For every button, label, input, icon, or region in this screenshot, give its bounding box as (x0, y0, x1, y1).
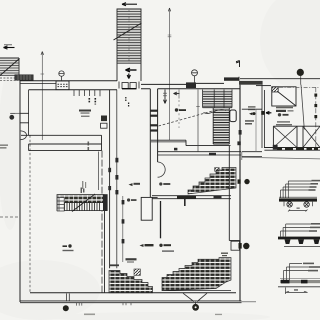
corridor stem left wall (149, 89, 151, 198)
detail D3 top line (280, 278, 320, 280)
stair S1 shaft walls (117, 9, 141, 82)
dark fill on wall band (177, 196, 196, 199)
label on right wall lower (245, 120, 254, 124)
door arc on left wall (21, 131, 27, 140)
long corridor wall x=109.5 (109, 90, 111, 268)
detail D1 leader lines (281, 181, 312, 198)
filled grid bubble G4 (243, 243, 249, 249)
top wall left wing outer face (20, 80, 118, 82)
detail D3 dimension (286, 288, 308, 295)
labels annex text block (276, 107, 294, 126)
dark hatch dashes on bottom wall (277, 148, 318, 150)
annex bottom wall band (264, 148, 320, 151)
detail D3 bottom line (278, 286, 320, 288)
outer bottom wall (20, 301, 242, 303)
top wall right of shaft outer (141, 83, 186, 85)
detail D1 base ticks (284, 202, 313, 207)
stair S2 outline (0, 58, 19, 76)
long corridor wall x=116.8 (116, 90, 118, 268)
filled grid bubble G6 (bottom center) (192, 304, 199, 311)
room dimension marker 2 (174, 90, 180, 129)
dimension ticks below wall (77, 302, 132, 305)
detail D1 joist circle 1 (287, 202, 292, 207)
dark corner block bay1 (273, 145, 278, 150)
faint left margin text (0, 145, 8, 149)
ramp R2 top row hatch (57, 195, 104, 203)
section flag marker (236, 61, 240, 68)
wall second line y=155 (158, 154, 241, 156)
extension line x=256 (255, 109, 257, 152)
detail D1 dim text (297, 207, 300, 209)
entrance door jambs below shaft (119, 82, 139, 89)
filled grid bubble G5 (bottom left) (63, 305, 69, 311)
porch column marks (89, 98, 95, 105)
tiny marks near porch columns (88, 142, 90, 151)
ramp R1 small top block (215, 168, 220, 172)
inner wall x=230.5 (228, 146, 230, 241)
bay divider piers (273, 126, 303, 147)
label above left ramp (126, 258, 137, 262)
lift shaft rounded box (230, 110, 236, 122)
stair S3 landing line (203, 107, 232, 109)
detail D3 labels (303, 263, 320, 272)
door ticks bottom-left (67, 294, 70, 302)
arrow top-left (4, 45, 15, 49)
label in mid-right room (175, 108, 186, 111)
annex inner square room (272, 87, 296, 106)
stair S3 left edge (202, 90, 204, 108)
stair S2 landing hatched bar (15, 75, 33, 80)
annex top line (240, 78, 320, 80)
dark door block on right wall (upper) (239, 130, 242, 135)
wall corner down from ramp room (152, 196, 158, 198)
wall under mid rooms y=140 (151, 140, 186, 142)
link wall to annex (242, 108, 262, 110)
stair S3 lower treads (dark) (213, 110, 229, 143)
jog to right wall at y=240.5 (229, 240, 240, 242)
stem door jambs (150, 110, 157, 132)
ramp R3 upper small block (134, 269, 140, 275)
grid bubble G2 (192, 70, 198, 84)
stair S1 center dashed line (128, 10, 130, 63)
hatched corner block (272, 87, 278, 92)
ramp R2 body (57, 195, 104, 211)
room dimension marker 1 (163, 90, 167, 104)
bay 1 diagonals (273, 126, 297, 147)
bottom wall extension right (242, 301, 257, 303)
dimension line B (x=169.5) (168, 8, 172, 140)
ramp R2 mid line (57, 202, 104, 204)
V-guides to bottom bubble (183, 293, 207, 301)
ramp R2 lower treads (60, 203, 100, 211)
detail D1 slab top lines (279, 196, 317, 198)
ramp slope dashed line in mid-right room (159, 111, 214, 126)
dash-dot line across annex (279, 86, 320, 88)
interior wall x=160.5 lower (160, 201, 162, 238)
detail D2 leader lines (281, 224, 312, 237)
label mid corridor (127, 198, 136, 201)
wall band y=151.7 top of lower-right rooms (158, 151, 241, 153)
stair S3 walking-line curved arrow (204, 110, 227, 114)
left outer wall (19, 81, 21, 302)
detail D1 slab dark band (279, 198, 317, 201)
interior wall band y=144/150.5 (29, 144, 102, 151)
dark blobs on corridor wall (108, 158, 118, 195)
door opening in left wall (11, 113, 29, 123)
grid bubble G1 (59, 71, 64, 81)
room divider line x=198 (197, 90, 199, 152)
label room left-wing (79, 110, 91, 117)
bay 2 diagonals (303, 126, 320, 147)
diagonal brace in square (278, 92, 295, 106)
inner bottom wall (30, 292, 236, 294)
arrow at stair top (122, 3, 137, 6)
marks above ramp R2 (81, 188, 84, 194)
ramp R2 dark newel (103, 194, 108, 211)
wall band to grid line (196, 82, 224, 84)
top wall right of shaft inner (141, 88, 240, 90)
labels between buildings (248, 106, 256, 115)
detail D1 dimension (288, 210, 308, 212)
annex left wall (262, 85, 264, 148)
arrow inside shaft (126, 68, 137, 72)
link wall lower passage (242, 152, 262, 157)
dimension line A (x=42) (41, 52, 45, 141)
detail D3 leader lines (284, 264, 310, 281)
wall band under ramp R1 (152, 196, 231, 199)
stair S2 treads (0, 61, 19, 81)
small down arrow at entrance (127, 74, 130, 79)
stair S3 flight dividers (214, 90, 232, 108)
small arrow in annex link (266, 111, 271, 114)
raised dark parapet (224, 77, 239, 80)
annex left wall door block (261, 111, 265, 115)
corridor east wall segments with door blocks (122, 196, 124, 262)
interior wall y=135 (21, 134, 102, 136)
main right wall (239, 85, 241, 302)
stair S3 upper treads (203, 92, 232, 106)
annex north wall segment (256, 85, 271, 87)
top wall left wing second line (20, 82, 57, 84)
corridor walls to bottom (104, 211, 106, 293)
boxed symbol on dashed wall (57, 198, 64, 212)
detail D2 slab dark band (278, 237, 320, 240)
detail D3 band with blocks (280, 280, 320, 283)
small service rooms at corridor top (101, 116, 107, 122)
duct line beside corridor (98, 152, 100, 191)
left wall inner line upper (28, 90, 30, 136)
detail D1 labels (309, 180, 320, 191)
ramp R3 stepped hatch (109, 271, 153, 293)
window bay on top wall (56, 81, 69, 90)
faint bottom text (84, 314, 222, 316)
tiny text above ramp R4 (221, 253, 228, 257)
filled grid bubble G3 (297, 69, 304, 76)
corridor left wall upper stub (101, 135, 103, 150)
detail D2 joists (285, 239, 320, 244)
label VIVIENDA (left big room) (63, 244, 74, 251)
long corridor wall x=102 (101, 151, 103, 293)
wall y=145.6 under big stair (186, 145, 231, 147)
stair S2 break diagonal (0, 59, 20, 76)
dark wall block (186, 82, 196, 88)
stair S3 lower flight rails (213, 108, 229, 144)
dark tick on wall (209, 153, 216, 156)
dark door block + grid bubble at y=181 (238, 179, 241, 183)
annex roof bays top line (273, 125, 320, 127)
ramp R4 bottom line (162, 290, 231, 292)
top wall left wing inner face (29, 89, 117, 91)
door arc at stem bottom (158, 162, 166, 177)
faint vertical text left of corridor (82, 181, 86, 189)
labels at y=183 (129, 182, 171, 186)
section line through annex (301, 76, 305, 130)
terrain line right (242, 157, 320, 159)
left wall inner dashed line (29, 135, 31, 292)
corridor micro marks (126, 97, 129, 107)
dashed leader to left margin (0, 216, 20, 218)
wall jog at x=186 (185, 140, 187, 145)
annex right wall with ticks (315, 87, 317, 147)
detail D1 joist circle 2 (304, 202, 309, 207)
dark door block lower right wall (239, 243, 242, 249)
ramp R4 stepped hatch (162, 258, 231, 291)
stair S1 treads (117, 12, 141, 64)
ramp R1 stepped hatch (188, 168, 236, 195)
detail D2 bottom line (284, 246, 320, 248)
label left of left ramp (110, 264, 119, 266)
labels bottom center (140, 244, 175, 252)
dark wall band toward annex (239, 81, 263, 85)
window rect on right wall (231, 241, 240, 250)
stair S1 break diagonal (114, 23, 142, 40)
corridor stem right wall (157, 89, 159, 162)
detail D2 labels (309, 223, 320, 232)
porch hanging posts under wall (74, 90, 100, 97)
marker bubble on left wall (9, 115, 14, 120)
ramp R2 break diagonal (72, 194, 95, 212)
